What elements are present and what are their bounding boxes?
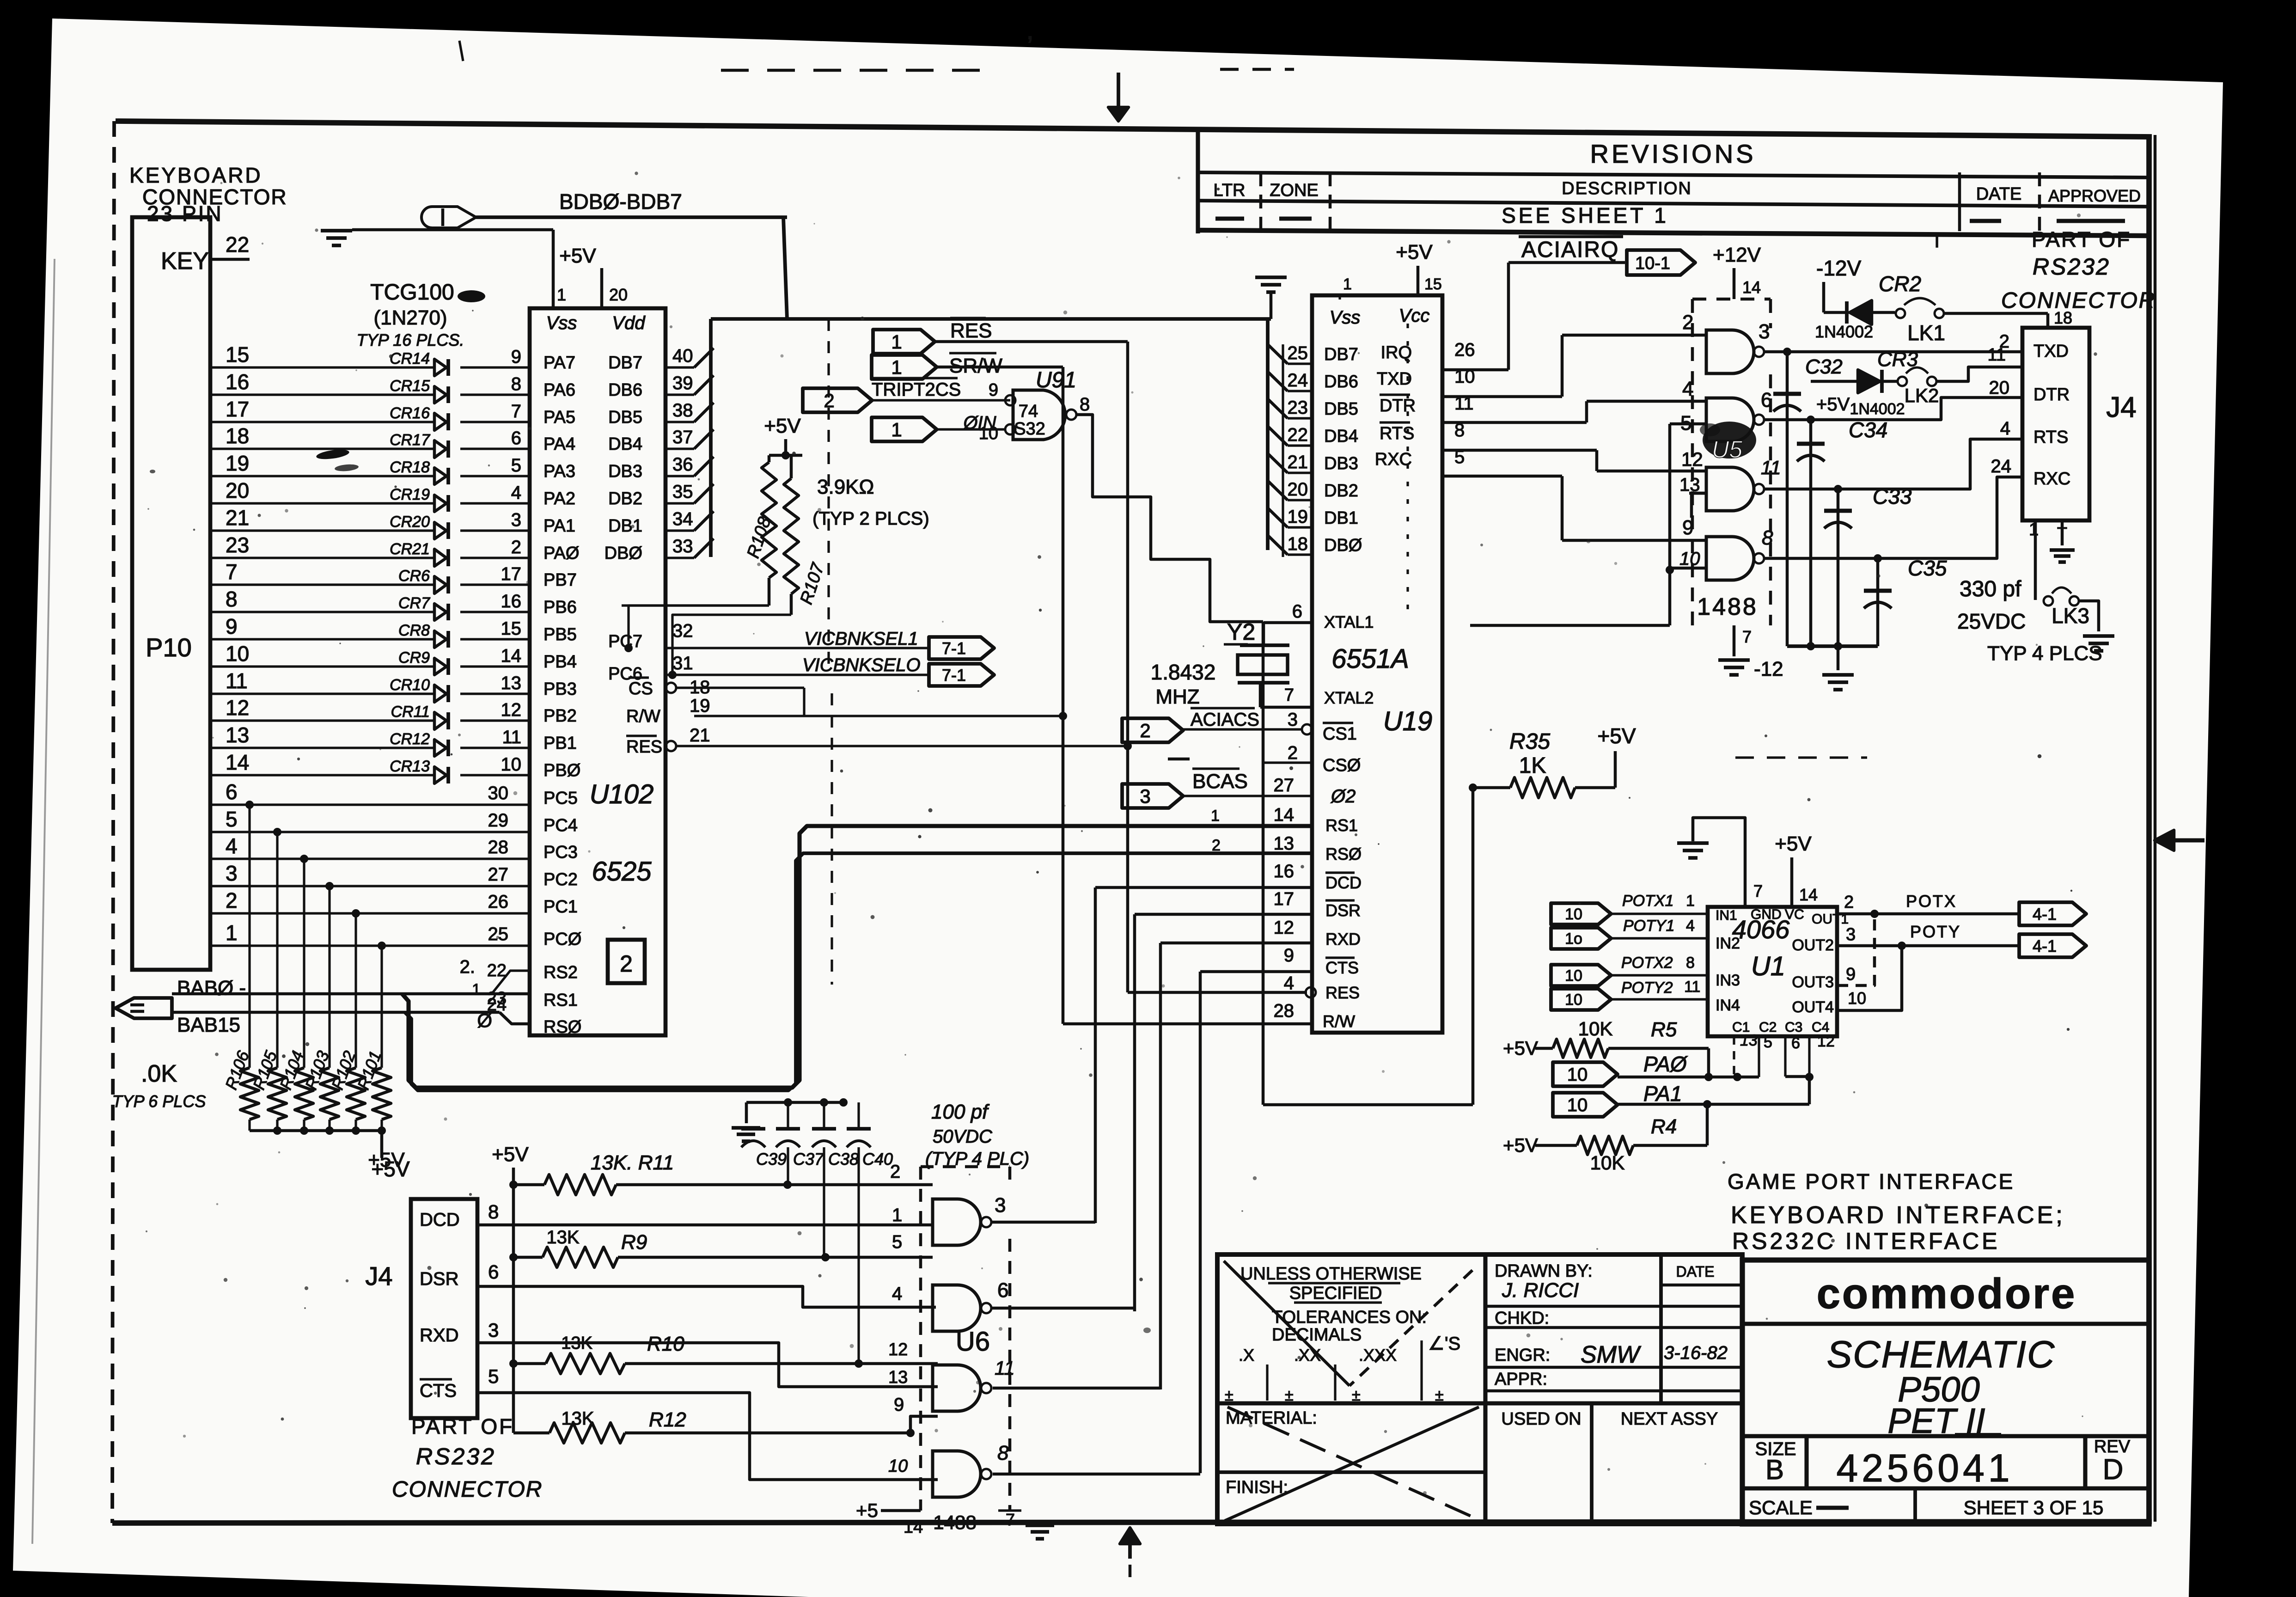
svg-text:8: 8: [511, 374, 521, 394]
svg-text:9: 9: [226, 614, 238, 638]
svg-text:9: 9: [894, 1395, 904, 1415]
svg-text:RSØ: RSØ: [543, 1017, 581, 1037]
svg-text:J. RICCI: J. RICCI: [1502, 1279, 1579, 1302]
svg-text:8: 8: [1686, 954, 1695, 972]
svg-text:DB2: DB2: [1324, 481, 1358, 501]
svg-text:16: 16: [1274, 861, 1295, 881]
svg-text:RS2: RS2: [543, 963, 578, 982]
svg-text:∠'S: ∠'S: [1428, 1334, 1460, 1354]
svg-text:DTR: DTR: [2033, 385, 2070, 404]
svg-text:15: 15: [1424, 275, 1442, 293]
svg-text:22: 22: [1288, 425, 1308, 445]
svg-text:1: 1: [2029, 520, 2039, 539]
svg-text:LK2: LK2: [1905, 385, 1939, 406]
svg-text:16: 16: [501, 591, 522, 612]
svg-text:APPROVED: APPROVED: [2048, 186, 2141, 205]
svg-text:4066: 4066: [1732, 915, 1790, 944]
svg-text:VICBNKSEL1: VICBNKSEL1: [804, 629, 918, 649]
svg-text:15: 15: [226, 343, 249, 367]
svg-text:10: 10: [1565, 991, 1582, 1009]
svg-text:13K. R11: 13K. R11: [591, 1151, 674, 1174]
svg-text:Ø2: Ø2: [1330, 786, 1356, 807]
svg-text:20: 20: [226, 478, 249, 502]
svg-text:PA1: PA1: [543, 516, 575, 536]
svg-text:±: ±: [1435, 1387, 1444, 1404]
svg-text:25: 25: [488, 924, 509, 944]
svg-text:22: 22: [226, 233, 249, 257]
svg-text:1K: 1K: [1519, 753, 1546, 778]
svg-text:2: 2: [1212, 837, 1221, 854]
svg-text:DB4: DB4: [1324, 427, 1358, 446]
svg-text:PB5: PB5: [543, 625, 577, 644]
svg-text:POTX: POTX: [1906, 892, 1957, 911]
svg-text:CR15: CR15: [390, 377, 430, 395]
svg-text:C39: C39: [756, 1150, 787, 1169]
svg-text:13: 13: [888, 1368, 908, 1387]
svg-text:27: 27: [1274, 775, 1295, 795]
svg-text:+5V: +5V: [1775, 832, 1812, 855]
svg-text:DB2: DB2: [608, 489, 642, 508]
svg-text:MHZ: MHZ: [1155, 685, 1199, 708]
svg-text:PA7: PA7: [543, 353, 575, 373]
svg-text:RES: RES: [950, 319, 992, 342]
svg-text:Vdd: Vdd: [612, 313, 646, 333]
svg-text:1: 1: [891, 419, 902, 441]
svg-text:1: 1: [472, 981, 481, 998]
svg-text:4: 4: [1284, 973, 1294, 993]
svg-text:CHKD:: CHKD:: [1495, 1309, 1549, 1328]
svg-text:VICBNKSELO: VICBNKSELO: [802, 655, 921, 675]
svg-text:10-1: 10-1: [1635, 254, 1670, 273]
svg-text:CS: CS: [629, 679, 653, 698]
svg-text:D: D: [2103, 1454, 2124, 1486]
svg-text:CONNECTOR: CONNECTOR: [2001, 288, 2156, 313]
svg-text:8: 8: [226, 587, 238, 611]
svg-text:1.8432: 1.8432: [1151, 660, 1216, 684]
svg-text:10: 10: [1679, 549, 1700, 569]
svg-text:5: 5: [488, 1365, 499, 1387]
svg-text:PC5: PC5: [543, 789, 578, 808]
svg-text:SPECIFIED: SPECIFIED: [1289, 1284, 1382, 1303]
svg-text:TOLERANCES ON:: TOLERANCES ON:: [1272, 1308, 1427, 1327]
svg-text:+5V: +5V: [492, 1143, 529, 1166]
svg-text:3-16-82: 3-16-82: [1664, 1343, 1728, 1363]
svg-text:POTX1: POTX1: [1622, 892, 1673, 910]
svg-text:C2: C2: [1759, 1020, 1777, 1035]
svg-text:14: 14: [226, 750, 249, 774]
svg-text:IN3: IN3: [1716, 972, 1740, 989]
svg-text:CONNECTOR: CONNECTOR: [392, 1477, 543, 1502]
svg-text:17: 17: [501, 564, 522, 584]
svg-text:5: 5: [892, 1232, 902, 1252]
svg-text:DRAWN BY:: DRAWN BY:: [1495, 1261, 1593, 1281]
svg-text:14: 14: [1742, 278, 1761, 297]
svg-text:1N4002: 1N4002: [1815, 322, 1873, 341]
svg-text:TCG100: TCG100: [370, 280, 454, 305]
svg-text:100 pf: 100 pf: [931, 1101, 990, 1123]
svg-text:DB7: DB7: [608, 353, 642, 373]
svg-text:4: 4: [2000, 418, 2010, 439]
svg-text:DBØ: DBØ: [1324, 536, 1362, 555]
svg-text:2: 2: [226, 888, 238, 912]
svg-text:-12: -12: [1754, 658, 1783, 680]
svg-text:11: 11: [995, 1357, 1015, 1379]
svg-text:PB3: PB3: [543, 679, 577, 699]
svg-text:6: 6: [226, 780, 238, 804]
svg-text:.XX: .XX: [1294, 1346, 1321, 1364]
svg-text:DB5: DB5: [608, 408, 642, 427]
svg-text:DESCRIPTION: DESCRIPTION: [1562, 179, 1692, 198]
svg-text:26: 26: [488, 892, 509, 912]
svg-text:C32: C32: [1805, 355, 1843, 378]
svg-text:DB1: DB1: [1324, 508, 1358, 528]
svg-text:RTS: RTS: [1380, 424, 1414, 443]
svg-text:IRQ: IRQ: [1380, 343, 1412, 362]
svg-text:24: 24: [1288, 370, 1308, 391]
svg-text:36: 36: [672, 454, 693, 475]
svg-text:+5V: +5V: [1816, 394, 1850, 415]
svg-text:DSR: DSR: [420, 1269, 458, 1289]
svg-text:J4: J4: [365, 1261, 392, 1291]
svg-text:(TYP 4 PLC): (TYP 4 PLC): [925, 1149, 1029, 1169]
svg-text:RS232: RS232: [2033, 254, 2110, 280]
svg-text:3: 3: [226, 861, 238, 885]
svg-text:4: 4: [1686, 917, 1695, 935]
svg-text:23: 23: [226, 533, 249, 557]
svg-text:SMW: SMW: [1581, 1341, 1642, 1368]
svg-text:DB7: DB7: [1324, 345, 1358, 364]
svg-text:U19: U19: [1383, 706, 1432, 736]
svg-text:40: 40: [672, 346, 693, 366]
svg-text:(1N270): (1N270): [374, 306, 447, 329]
svg-text:PAØ: PAØ: [1643, 1052, 1688, 1076]
svg-text:.0K: .0K: [141, 1060, 177, 1087]
svg-text:10: 10: [1567, 1065, 1588, 1085]
svg-text:MATERIAL:: MATERIAL:: [1226, 1408, 1317, 1428]
svg-text:DSR: DSR: [1325, 901, 1361, 920]
svg-text:PAØ: PAØ: [543, 544, 579, 563]
svg-text:4-1: 4-1: [2033, 936, 2057, 955]
svg-text:TYP 4 PLCS: TYP 4 PLCS: [1987, 642, 2102, 665]
svg-text:TYP 16 PLCS.: TYP 16 PLCS.: [357, 330, 464, 349]
svg-text:TXD: TXD: [1377, 369, 1412, 389]
svg-text:19: 19: [1288, 507, 1308, 527]
svg-text:Vcc: Vcc: [1399, 306, 1430, 326]
svg-text:3.9KΩ: 3.9KΩ: [817, 476, 874, 498]
svg-text:PA3: PA3: [543, 462, 575, 481]
svg-text:±: ±: [1285, 1387, 1294, 1404]
svg-text:ACIACS: ACIACS: [1191, 710, 1259, 730]
svg-text:CR6: CR6: [398, 567, 430, 585]
svg-text:CR16: CR16: [390, 404, 430, 422]
svg-text:13K: 13K: [546, 1227, 579, 1248]
svg-text:DB5: DB5: [1324, 399, 1358, 419]
svg-text:BCAS: BCAS: [1192, 770, 1248, 793]
svg-text:IN4: IN4: [1716, 997, 1740, 1014]
svg-text:R10: R10: [647, 1333, 684, 1355]
svg-text:Vss: Vss: [1330, 307, 1361, 328]
svg-text:PB7: PB7: [543, 570, 577, 590]
svg-text:19: 19: [226, 451, 249, 475]
svg-text:B: B: [1765, 1454, 1784, 1485]
svg-text:DBØ: DBØ: [605, 544, 642, 563]
svg-text:2: 2: [1844, 893, 1854, 912]
svg-text:1: 1: [1343, 275, 1352, 293]
svg-text:R4: R4: [1651, 1115, 1677, 1138]
svg-text:3: 3: [1288, 710, 1298, 730]
svg-text:+5V: +5V: [1503, 1037, 1538, 1059]
svg-text:38: 38: [672, 400, 693, 421]
svg-text:6: 6: [1791, 1034, 1800, 1052]
svg-text:10: 10: [226, 642, 249, 666]
svg-text:37: 37: [672, 427, 693, 447]
svg-text:330 pf: 330 pf: [1960, 577, 2021, 601]
svg-text:30: 30: [488, 783, 509, 803]
svg-text:7-1: 7-1: [942, 666, 966, 685]
svg-text:C37: C37: [793, 1150, 824, 1169]
svg-text:BDBØ-BDB7: BDBØ-BDB7: [559, 190, 682, 214]
svg-text:7: 7: [1006, 1510, 1015, 1529]
svg-text:34: 34: [672, 509, 693, 529]
svg-text:12: 12: [888, 1340, 908, 1359]
svg-text:RES: RES: [1325, 983, 1360, 1002]
svg-text:10K: 10K: [1578, 1018, 1613, 1040]
svg-text:RXD: RXD: [420, 1325, 458, 1346]
svg-text:9: 9: [989, 380, 998, 400]
svg-text:NEXT ASSY: NEXT ASSY: [1621, 1409, 1718, 1429]
svg-text:RS232: RS232: [416, 1444, 496, 1469]
svg-text:1: 1: [891, 356, 902, 378]
svg-text:IN2: IN2: [1716, 935, 1740, 952]
svg-text:Vss: Vss: [546, 313, 577, 333]
svg-text:PCØ: PCØ: [543, 930, 581, 949]
svg-text:5: 5: [511, 455, 521, 476]
svg-text:S32: S32: [1014, 419, 1045, 439]
svg-text:POTY1: POTY1: [1623, 917, 1674, 935]
svg-text:2.: 2.: [460, 957, 475, 977]
svg-text:35: 35: [672, 482, 693, 502]
svg-text:CR14: CR14: [390, 350, 430, 367]
svg-text:24: 24: [1991, 456, 2012, 477]
svg-text:8: 8: [997, 1442, 1009, 1464]
svg-text:commodore: commodore: [1817, 1270, 2077, 1317]
svg-text:+5V: +5V: [1503, 1134, 1538, 1156]
svg-text:17: 17: [226, 397, 249, 421]
svg-text:U6: U6: [956, 1327, 990, 1357]
svg-text:CR12: CR12: [390, 730, 430, 748]
svg-text:+5V: +5V: [368, 1149, 405, 1171]
svg-text:DATE: DATE: [1676, 1263, 1715, 1280]
svg-text:±: ±: [1225, 1387, 1233, 1404]
svg-text:1o: 1o: [1565, 930, 1582, 948]
svg-text:7: 7: [1284, 685, 1294, 705]
svg-text:PA1: PA1: [1643, 1082, 1682, 1106]
svg-text:PC3: PC3: [543, 843, 578, 862]
svg-text:3: 3: [488, 1319, 499, 1341]
svg-text:8: 8: [1762, 526, 1773, 549]
svg-text:+5: +5: [856, 1499, 878, 1521]
svg-text:19: 19: [690, 696, 710, 716]
svg-text:10: 10: [1565, 967, 1582, 985]
svg-text:POTY2: POTY2: [1621, 979, 1673, 997]
svg-text:10: 10: [1565, 906, 1582, 923]
svg-text:PA5: PA5: [543, 408, 575, 427]
svg-text:14: 14: [501, 646, 522, 666]
svg-text:21: 21: [690, 725, 710, 746]
svg-text:12: 12: [501, 700, 522, 720]
svg-text:PBØ: PBØ: [543, 761, 580, 780]
svg-text:USED ON: USED ON: [1501, 1409, 1581, 1429]
svg-text:6: 6: [1292, 601, 1302, 622]
svg-text:1488: 1488: [1697, 594, 1758, 620]
svg-text:4256041: 4256041: [1836, 1446, 2013, 1490]
svg-text:PC2: PC2: [543, 870, 578, 889]
svg-text:33: 33: [672, 536, 693, 557]
svg-text:CR19: CR19: [390, 486, 430, 503]
svg-text:7-1: 7-1: [942, 639, 966, 658]
svg-text:25VDC: 25VDC: [1957, 609, 2026, 633]
svg-text:REVISIONS: REVISIONS: [1590, 139, 1756, 168]
svg-text:+5V: +5V: [1396, 241, 1433, 263]
svg-text:1: 1: [557, 285, 566, 304]
svg-text:7: 7: [226, 560, 238, 584]
svg-text:PART OF: PART OF: [2032, 227, 2131, 251]
svg-text:1: 1: [892, 1205, 902, 1225]
svg-text:PC1: PC1: [543, 897, 578, 917]
svg-text:14: 14: [1799, 885, 1818, 904]
svg-text:13: 13: [1740, 1032, 1758, 1049]
svg-text:POTY: POTY: [1910, 922, 1961, 941]
svg-text:CR9: CR9: [398, 649, 430, 667]
svg-text:PB1: PB1: [543, 734, 577, 753]
svg-text:10: 10: [1567, 1095, 1588, 1115]
svg-text:CR3: CR3: [1877, 348, 1918, 371]
svg-text:3: 3: [995, 1194, 1006, 1217]
svg-text:11: 11: [502, 727, 521, 747]
svg-text:21: 21: [1288, 452, 1308, 472]
svg-text:APPR:: APPR:: [1495, 1370, 1547, 1389]
svg-text:8: 8: [1080, 394, 1090, 415]
svg-text:7: 7: [511, 401, 521, 422]
svg-text:20: 20: [1288, 479, 1308, 500]
svg-text:R/W: R/W: [626, 707, 660, 726]
svg-text:OUT4: OUT4: [1792, 998, 1834, 1016]
svg-text:26: 26: [1454, 340, 1475, 360]
svg-text:+5V: +5V: [764, 415, 801, 437]
svg-text:2: 2: [1288, 743, 1298, 763]
svg-text:DCD: DCD: [1325, 873, 1362, 892]
svg-text:23: 23: [1288, 398, 1308, 418]
svg-text:PA6: PA6: [543, 380, 575, 400]
svg-text:SEE SHEET 1: SEE SHEET 1: [1502, 203, 1669, 227]
svg-text:PART OF: PART OF: [411, 1414, 514, 1438]
svg-text:RXC: RXC: [1375, 450, 1412, 469]
svg-text:2: 2: [620, 951, 633, 977]
svg-text:10: 10: [1848, 989, 1866, 1008]
svg-text:SCALE: SCALE: [1749, 1497, 1813, 1518]
svg-text:ZONE: ZONE: [1270, 181, 1319, 200]
svg-text:LK1: LK1: [1907, 321, 1945, 345]
svg-text:’: ’: [1027, 31, 1033, 61]
svg-text:74: 74: [1019, 402, 1038, 421]
svg-text:10K: 10K: [1590, 1152, 1625, 1174]
svg-text:1488: 1488: [933, 1511, 976, 1533]
svg-text:DB3: DB3: [608, 462, 642, 481]
svg-text:POTX2: POTX2: [1621, 954, 1673, 972]
svg-text:1: 1: [1686, 892, 1695, 910]
svg-text:31: 31: [672, 653, 693, 673]
svg-text:6: 6: [511, 428, 521, 448]
svg-text:13: 13: [501, 673, 522, 693]
svg-text:+5V: +5V: [559, 245, 596, 267]
svg-text:R5: R5: [1651, 1018, 1677, 1041]
svg-text:OUT3: OUT3: [1792, 973, 1834, 991]
svg-text:GAME PORT INTERFACE: GAME PORT INTERFACE: [1728, 1169, 2015, 1193]
svg-text:RS1: RS1: [543, 991, 578, 1010]
svg-text:18: 18: [226, 424, 249, 448]
svg-text:4-1: 4-1: [2033, 905, 2057, 924]
svg-text:TRIPT2CS: TRIPT2CS: [872, 379, 961, 400]
svg-text:16: 16: [226, 370, 249, 394]
svg-text:C40: C40: [862, 1150, 893, 1169]
svg-text:6551A: 6551A: [1331, 644, 1409, 674]
svg-text:DB3: DB3: [1324, 454, 1358, 473]
svg-text:TYP 6 PLCS: TYP 6 PLCS: [112, 1092, 206, 1111]
svg-text:10: 10: [501, 754, 522, 775]
svg-text:29: 29: [488, 810, 509, 831]
svg-text:RXC: RXC: [2033, 469, 2070, 489]
svg-text:OUT2: OUT2: [1792, 936, 1834, 954]
svg-text:FINISH:: FINISH:: [1226, 1478, 1288, 1497]
svg-text:TXD: TXD: [2033, 342, 2069, 361]
svg-text:28: 28: [488, 837, 509, 857]
svg-text:±: ±: [1352, 1387, 1361, 1404]
svg-text:1N4002: 1N4002: [1850, 400, 1905, 418]
svg-text:17: 17: [1274, 889, 1295, 909]
svg-text:U1: U1: [1751, 951, 1785, 981]
svg-text:PC4: PC4: [543, 816, 578, 835]
svg-text:KEYBOARD: KEYBOARD: [129, 163, 263, 187]
svg-text:6: 6: [997, 1279, 1008, 1302]
svg-text:4: 4: [511, 483, 521, 503]
svg-text:CR17: CR17: [390, 431, 430, 449]
svg-text:RXD: RXD: [1325, 930, 1361, 948]
svg-text:J4: J4: [2106, 392, 2136, 423]
svg-text:PA4: PA4: [543, 434, 575, 454]
svg-text:21: 21: [226, 506, 249, 530]
svg-text:20: 20: [609, 285, 628, 304]
svg-text:32: 32: [672, 621, 693, 641]
svg-text:DB6: DB6: [608, 380, 642, 400]
svg-text:DECIMALS: DECIMALS: [1272, 1325, 1362, 1345]
svg-text:-12V: -12V: [1816, 256, 1861, 280]
svg-text:UNLESS OTHERWISE: UNLESS OTHERWISE: [1240, 1264, 1422, 1284]
svg-text:7: 7: [1742, 627, 1752, 646]
svg-text:PB4: PB4: [543, 652, 577, 672]
svg-text:XTAL1: XTAL1: [1324, 612, 1374, 631]
svg-text:.XXX: .XXX: [1359, 1346, 1397, 1364]
svg-text:28: 28: [1274, 1001, 1295, 1021]
svg-text:7: 7: [1753, 881, 1763, 900]
svg-text:5: 5: [226, 807, 238, 831]
svg-text:6525: 6525: [592, 857, 652, 887]
svg-text:P10: P10: [146, 633, 192, 662]
svg-text:3: 3: [511, 510, 521, 530]
svg-text:14: 14: [1274, 805, 1295, 825]
svg-text:PB6: PB6: [543, 598, 577, 617]
svg-text:11: 11: [226, 669, 248, 693]
svg-text:9: 9: [1846, 965, 1856, 984]
